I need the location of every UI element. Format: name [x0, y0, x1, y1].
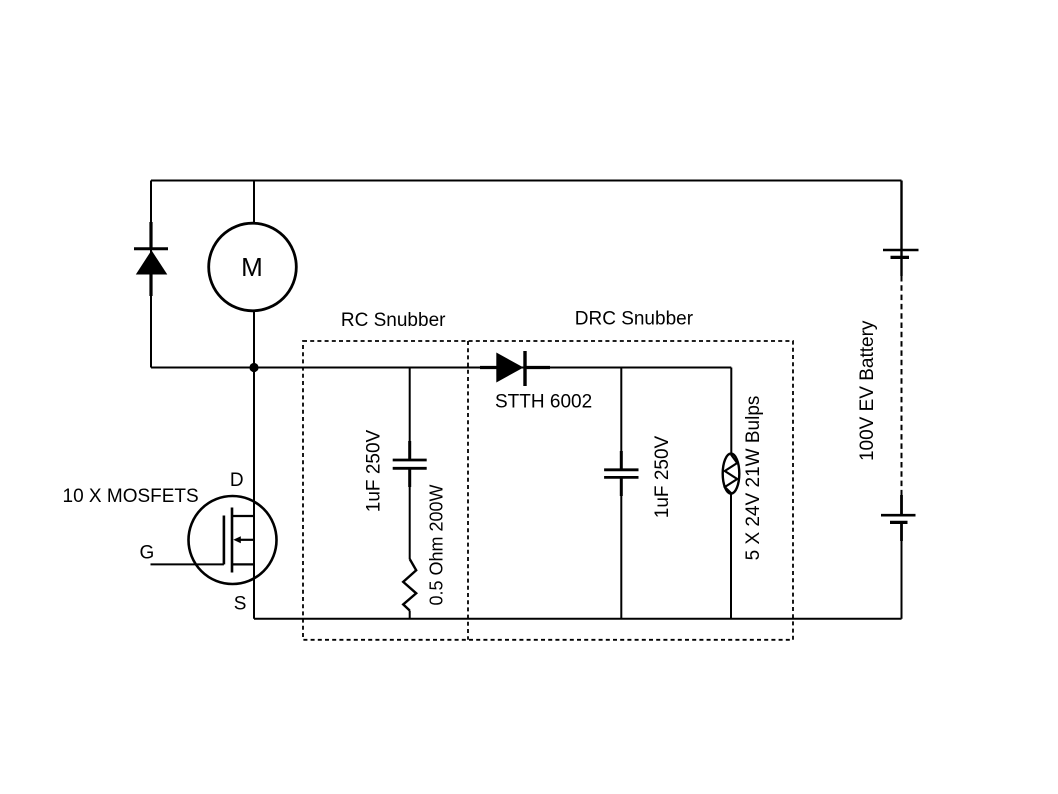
motor M	[209, 223, 297, 311]
svg-text:D: D	[230, 470, 244, 491]
svg-text:100V EV Battery: 100V EV Battery	[857, 320, 878, 461]
capacitor C2	[604, 451, 638, 496]
svg-text:1uF 250V: 1uF 250V	[364, 429, 385, 512]
wire MOSFET drain-source vertical	[253, 368, 255, 619]
wire RC branch upper	[409, 368, 411, 461]
wire bottom-left horizontal to node	[151, 367, 254, 369]
svg-text:RC Snubber: RC Snubber	[341, 310, 446, 331]
wire gate lead	[151, 563, 224, 565]
wire DRC cap branch lower	[620, 477, 622, 618]
wire RC mid	[409, 468, 411, 559]
svg-text:10 X MOSFETS: 10 X MOSFETS	[63, 486, 199, 507]
wire bulb branch upper	[730, 368, 732, 455]
wire main node horizontal	[254, 367, 731, 369]
wire RC bottom	[409, 611, 411, 619]
battery cell 1	[883, 250, 919, 257]
svg-text:DRC Snubber: DRC Snubber	[575, 309, 694, 330]
wire motor branch top	[253, 181, 255, 224]
svg-text:S: S	[234, 594, 247, 615]
capacitor C1	[393, 441, 427, 487]
resistor R1	[403, 559, 416, 611]
wire motor bottom to node	[253, 311, 255, 368]
wire battery dashed middle	[901, 276, 903, 495]
transistor Q1 MOSFET	[189, 496, 277, 584]
diode D1 freewheel	[134, 222, 168, 296]
wire battery right vertical top	[900, 181, 902, 277]
svg-text:1uF 250V: 1uF 250V	[652, 435, 673, 518]
diode D2 STTH 6002	[480, 351, 550, 386]
svg-text:G: G	[140, 543, 155, 564]
wire bulb branch lower	[730, 493, 732, 619]
svg-text:5 X 24V 21W Bulps: 5 X 24V 21W Bulps	[743, 396, 764, 561]
wire bottom rail	[254, 618, 902, 620]
wire top rail	[151, 180, 902, 182]
svg-text:0.5 Ohm 200W: 0.5 Ohm 200W	[427, 484, 447, 605]
node junction dot	[249, 363, 258, 372]
svg-text:STTH 6002: STTH 6002	[495, 392, 592, 413]
wire DRC cap branch upper	[620, 368, 622, 470]
battery cell 2	[881, 495, 916, 541]
snubber dashed box	[303, 341, 793, 640]
snubber box divider	[467, 341, 469, 640]
svg-text:M: M	[241, 252, 263, 282]
wire left vertical (freewheel diode branch)	[150, 181, 152, 368]
lamp L1 bulbs	[723, 454, 740, 494]
wire battery bottom	[901, 541, 903, 619]
